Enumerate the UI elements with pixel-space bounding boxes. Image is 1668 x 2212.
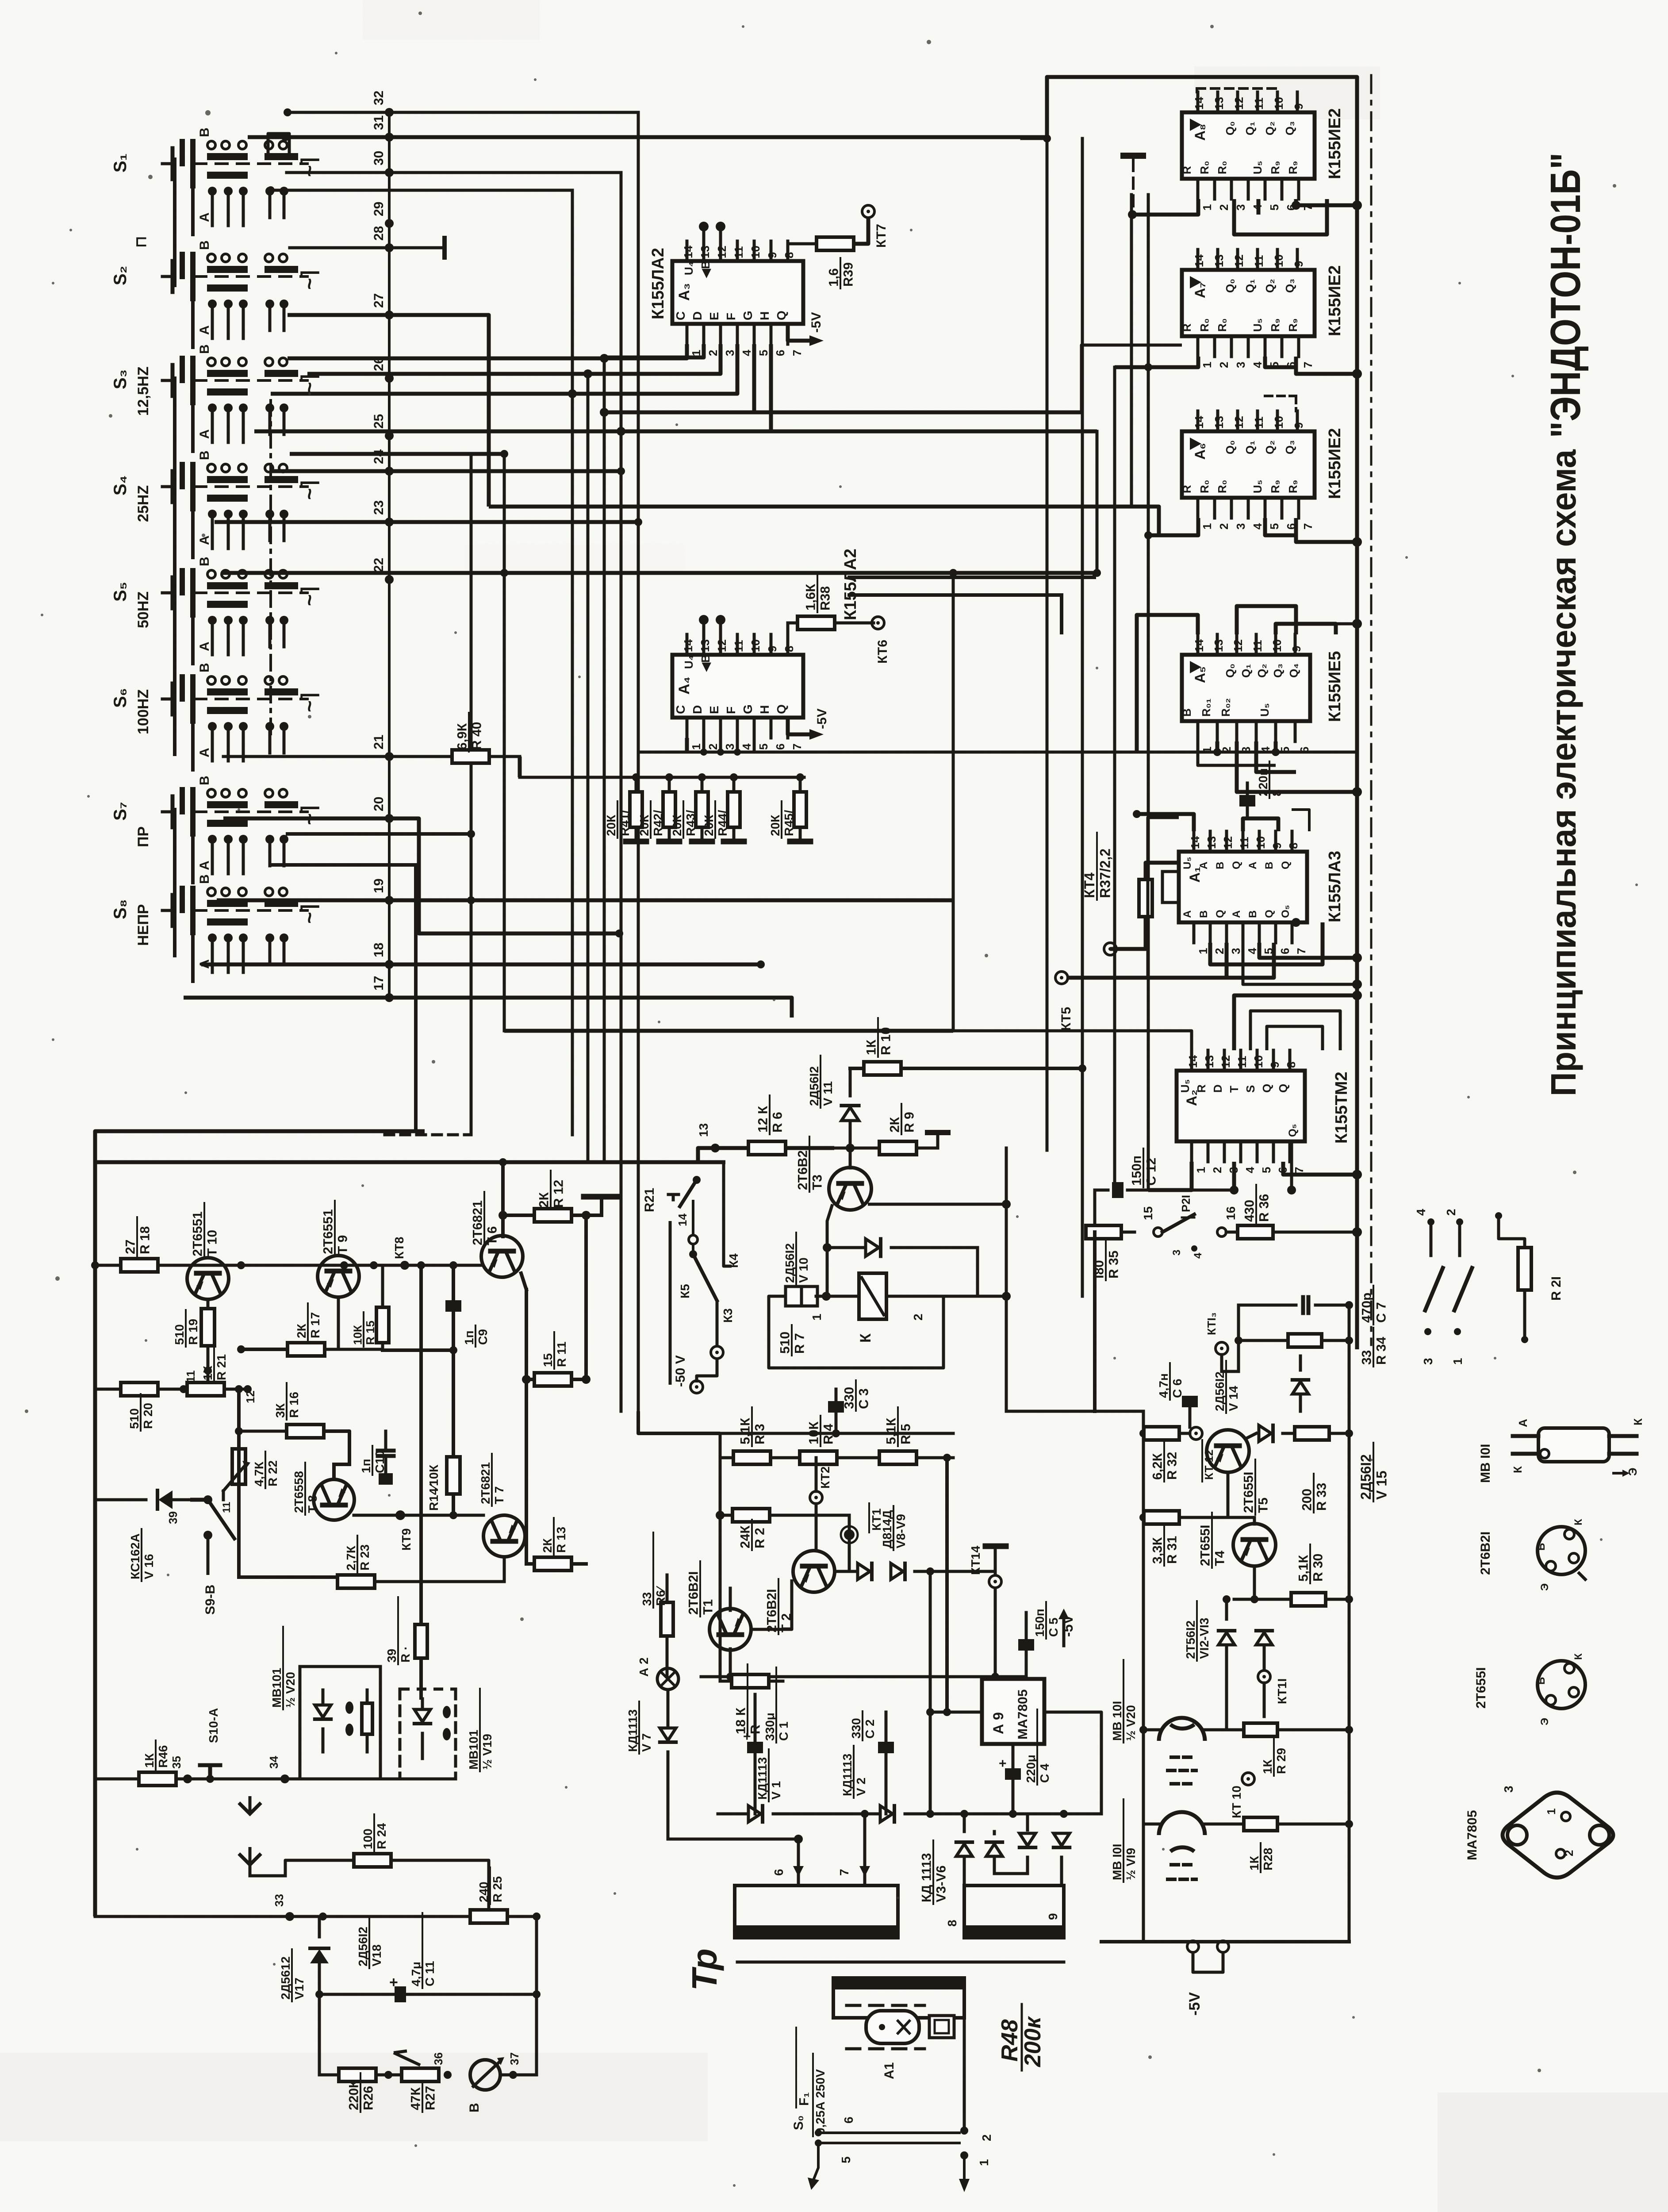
terminal KT8 [392,1237,409,1270]
capacitor C2 330 [849,1711,894,1814]
svg-text:3: 3 [1229,948,1242,954]
terminal KT9 [395,1510,413,1551]
wire T9 base down [337,1297,340,1349]
transformer tertiary winding box [833,1978,964,2018]
svg-text:24К: 24К [738,1525,753,1548]
capacitor C9 1n [383,1261,490,1455]
svg-text:27: 27 [372,293,386,308]
terminal KT12 [1190,1427,1216,1482]
wire vertical bus x1329 [587,374,590,1162]
wire opto bottoms [322,1779,323,1823]
svg-text:36: 36 [432,2052,445,2065]
svg-text:В: В [197,776,212,785]
svg-text:С 2: С 2 [863,1719,877,1739]
wire node20 row [223,818,623,937]
svg-text:R 20: R 20 [141,1403,155,1429]
svg-text:Т3: Т3 [810,1175,825,1190]
svg-text:Т 10: Т 10 [205,1230,220,1256]
svg-text:2: 2 [706,350,720,356]
capacitor C5 150n [1018,1602,1060,1677]
legend switch contacts [1414,1209,1472,1365]
antenna jacks [239,1796,285,1876]
svg-text:R₉: R₉ [1286,161,1300,174]
svg-text:V 16: V 16 [142,1554,156,1579]
svg-text:29: 29 [372,202,386,216]
wire A7 bottom connections [1115,357,1362,379]
svg-text:11: 11 [732,640,745,653]
svg-text:R42/: R42/ [651,810,665,836]
svg-text:20К: 20К [637,814,651,836]
svg-text:U₅: U₅ [1251,161,1264,174]
svg-text:330: 330 [849,1718,863,1739]
svg-text:S₀: S₀ [791,2115,806,2130]
node 34 [267,1756,289,1783]
resistor R6 12K [748,1095,786,1155]
mechanical link dashed S3-S6 [269,400,272,734]
wire A3 pin1 row [288,344,687,363]
svg-text:V8-V9: V8-V9 [894,1514,908,1548]
svg-text:2: 2 [706,744,720,750]
svg-text:К155ИЕ2: К155ИЕ2 [1326,108,1344,179]
svg-text:МВ I0I: МВ I0I [1110,1844,1124,1880]
svg-text:V 10: V 10 [797,1257,810,1283]
svg-text:С 4: С 4 [1038,1763,1051,1783]
terminal KT4 [1104,943,1116,955]
svg-text:1: 1 [977,2159,991,2166]
svg-text:КД 1113: КД 1113 [920,1853,934,1902]
wire vertical x1325 [584,1215,588,1379]
title text [1542,153,1589,1096]
transistor T1 2T6821 [686,1561,792,1677]
wire vertical bus x1294 [571,190,574,1135]
wire T6 emitter down x1190 [521,1273,526,1564]
svg-text:R₀: R₀ [1198,161,1211,175]
svg-text:А: А [197,325,212,335]
terminal KT14 bar [969,1546,1006,1677]
svg-text:Т5: Т5 [1256,1498,1271,1513]
node 21 [372,735,394,761]
svg-text:S₁: S₁ [111,154,130,173]
diode V7 KD1113 [626,1701,676,1839]
svg-text:V 15: V 15 [1373,1471,1389,1500]
svg-text:"ЭНДОТОН-01Б": "ЭНДОТОН-01Б" [1542,153,1589,438]
capacitor C10 1n [359,1431,394,1485]
node 27 [372,293,394,319]
svg-text:12: 12 [1232,97,1246,110]
svg-text:V 14: V 14 [1227,1386,1240,1411]
svg-text:Q₂: Q₂ [1263,440,1277,454]
svg-text:10: 10 [1272,254,1285,267]
wire A5 top connections [1137,606,1336,752]
svg-text:33: 33 [272,1894,286,1907]
wire A4 pin13-12 stubs up [699,615,725,634]
transformer secondary winding box [964,1886,1064,1939]
resistor R44 20K [702,773,744,841]
svg-text:Q₀: Q₀ [1223,279,1237,293]
svg-text:К5: К5 [678,1284,692,1298]
svg-text:Q₃: Q₃ [1271,664,1285,678]
wire y890 row [271,344,737,398]
svg-text:Т 9: Т 9 [336,1235,350,1254]
wire node31 row long to right frame [248,133,1048,141]
svg-text:U₄: U₄ [682,655,695,669]
svg-text:21: 21 [372,735,386,749]
svg-text:V 11: V 11 [821,1081,835,1106]
svg-text:7: 7 [790,350,804,356]
svg-text:10: 10 [1254,836,1267,849]
svg-text:Q: Q [775,311,788,320]
svg-text:R 10: R 10 [879,1027,893,1055]
svg-text:А: А [197,748,212,757]
svg-text:2Т655I: 2Т655I [1242,1472,1256,1513]
svg-text:Q₁: Q₁ [1243,279,1257,293]
svg-text:S₈: S₈ [111,899,130,919]
svg-text:U₄: U₄ [682,261,695,275]
capacitor C12 150n [1095,1141,1239,1232]
wire vstack x2558 [1130,195,1133,507]
svg-text:КТ9: КТ9 [399,1528,413,1551]
svg-text:8: 8 [782,252,796,258]
svg-text:6: 6 [772,1869,786,1876]
svg-text:В: В [1214,862,1226,869]
svg-text:15: 15 [1141,1206,1155,1220]
svg-text:2,7К: 2,7К [344,1545,358,1571]
svg-text:14: 14 [676,1214,689,1226]
wire S1 top U jumper [268,134,289,154]
svg-text:КТ8: КТ8 [392,1237,406,1259]
svg-text:2Д5612: 2Д5612 [279,1956,292,2000]
wire vstack x2480 [1093,431,1101,577]
node 20 [372,797,394,823]
wire A2 top nested connections [953,991,1362,1050]
svg-text:S9-В: S9-В [203,1585,218,1615]
svg-text:R 7: R 7 [793,1333,807,1354]
svg-text:25: 25 [372,414,386,429]
resistor R19 510 [173,1299,215,1389]
svg-text:9: 9 [1046,1913,1060,1920]
svg-text:3,3К: 3,3К [1150,1537,1165,1564]
svg-text:С9: С9 [476,1329,490,1345]
svg-text:33: 33 [640,1592,654,1606]
svg-text:Q₃: Q₃ [1283,121,1296,135]
wire base rail y3425 [239,1514,483,1517]
svg-text:7: 7 [1301,362,1315,368]
svg-text:R ·: R · [399,1646,412,1663]
svg-text:3: 3 [1234,362,1247,368]
svg-text:34: 34 [267,1756,280,1769]
svg-text:2К: 2К [537,1192,552,1208]
svg-text:10: 10 [1252,1055,1265,1068]
wire node25 row [254,344,1097,436]
wire right inner vertical x2447 [1081,138,1084,1296]
diodes V12 V13 2D5612 [1184,1595,1272,1730]
svg-text:В: В [197,874,212,884]
svg-text:2: 2 [1220,747,1233,753]
resistor R47 39 [385,1597,427,1664]
svg-text:Q: Q [775,704,788,714]
svg-text:D: D [690,705,704,714]
switch S5 50Hz [111,557,321,664]
diode V17 2D5612 [279,1916,329,2001]
svg-text:Q₂: Q₂ [1255,664,1269,678]
svg-text:Р2I: Р2I [1179,1195,1193,1212]
transistor T5 2T6551 [1196,1430,1271,1515]
transformer core lines [737,1961,1064,1964]
svg-text:330μ: 330μ [763,1713,777,1741]
svg-text:1,6К: 1,6К [804,584,818,611]
wire mid rails [720,1429,953,1681]
wire T7 emitter [0,0,0,0]
resistor R25 240 [470,1867,507,1923]
resistor R12 2K [498,1171,619,1222]
svg-text:30: 30 [372,151,386,165]
diode V15 2D5612 [1292,1305,1390,1502]
svg-text:~⌉: ~⌉ [298,480,321,500]
svg-text:9: 9 [1292,422,1305,429]
optocoupler right V19 [1110,1799,1244,1882]
wire S5-S6 link [185,593,186,712]
wire opto column [1143,1730,1144,1824]
terminal KT11 [1258,1671,1289,1717]
svg-text:R 40: R 40 [470,722,484,750]
svg-text:U₅: U₅ [1258,703,1271,717]
svg-text:К155ИЕ2: К155ИЕ2 [1326,428,1344,499]
svg-text:5,1К: 5,1К [1296,1555,1311,1582]
wire node21 row R40 [223,757,520,777]
optocoupler half V20 MB101 [270,1627,380,1779]
svg-text:3: 3 [1171,1250,1183,1256]
svg-text:К: К [1572,1653,1584,1660]
resistor R3 5.1K [733,1407,771,1464]
resistor R9 2K [879,1104,917,1155]
svg-text:2Т6В2I: 2Т6В2I [796,1147,810,1190]
resistor R27 47K variable [376,2051,439,2112]
IC U-A1 K155LA3 [1179,831,1344,954]
svg-text:10: 10 [1272,416,1285,429]
svg-text:+: + [389,1974,398,1991]
svg-text:Q: Q [1214,910,1226,918]
svg-text:V18: V18 [370,1944,383,1966]
wire node19 row [217,896,953,904]
IC U-A5 K155IE5 [1180,634,1344,753]
svg-text:8: 8 [1285,1062,1298,1068]
svg-text:Принципиальная электрическая: Принципиальная электрическая схема [1544,449,1583,1096]
svg-text:13: 13 [1212,639,1225,652]
svg-text:Тр: Тр [685,1948,724,1991]
wire A7 pin1 left [1081,345,1182,412]
svg-text:S₅: S₅ [111,582,130,602]
svg-text:R41/: R41/ [618,810,632,836]
svg-text:R₉: R₉ [1286,319,1300,332]
resistor R38 1.6K [788,573,874,634]
svg-text:К: К [1511,1466,1524,1473]
resistor R32 6.2K [1143,1427,1190,1482]
frame top right box [1047,77,1357,1349]
node 24 [372,449,394,476]
svg-text:1: 1 [810,1313,824,1321]
wire A5 bottom connections [1213,741,1362,797]
wire R6-R9 [786,1147,882,1150]
svg-text:R39: R39 [841,262,856,287]
fuse F1 label [796,2028,827,2136]
switch 15-16 R21 [1141,1195,1238,1259]
svg-text:R 11: R 11 [555,1341,568,1367]
svg-text:2Т56I2: 2Т56I2 [1184,1621,1197,1659]
wire opto row [95,1778,400,1781]
svg-text:19: 19 [372,879,386,893]
svg-text:1К: 1К [201,1365,215,1380]
label V8-V9 D814D [880,1506,908,1550]
svg-text:7: 7 [837,1869,851,1876]
svg-text:2: 2 [1217,204,1231,211]
svg-text:3: 3 [1421,1358,1435,1365]
svg-text:3: 3 [1239,747,1253,753]
switch S8 NEPR [111,874,321,981]
wire A9 left down [926,1571,934,1818]
svg-text:11: 11 [1252,417,1265,429]
wire vertical bus x1443 [637,113,640,1411]
power -5V A4 [788,708,829,740]
svg-text:1: 1 [1196,948,1210,954]
svg-text:0,25А 250V: 0,25А 250V [813,2069,827,2135]
svg-text:~⌉: ~⌉ [298,270,321,290]
svg-text:КД1113: КД1113 [626,1709,640,1752]
svg-text:10: 10 [749,246,762,258]
analog box border [95,1131,725,1916]
node 17 [372,976,394,1002]
svg-text:23: 23 [372,500,386,515]
wire node26 row [307,344,721,378]
svg-text:220п: 220п [1256,768,1270,796]
svg-text:G: G [741,311,755,320]
svg-text:R₉: R₉ [1269,161,1282,174]
switch S4 25Hz [111,450,321,557]
svg-text:510: 510 [127,1408,141,1429]
svg-text:R: R [1195,1084,1208,1093]
svg-text:МВ101: МВ101 [467,1730,480,1770]
legend MB101 connector [1478,1418,1645,1483]
wire node29 row [267,186,572,194]
svg-text:150п: 150п [1033,1609,1047,1637]
svg-text:Т 8: Т 8 [306,1495,319,1513]
wire right bus mid x2155 [949,569,957,1031]
svg-text:R₀: R₀ [1198,480,1211,494]
svg-text:13: 13 [1203,1055,1216,1068]
wire node28 stub [290,238,445,257]
svg-text:R 12: R 12 [552,1180,566,1208]
resistor R34 33 [1235,1328,1389,1367]
diodes V8 V9 [835,1563,995,1579]
svg-text:½ VI9: ½ VI9 [1124,1848,1138,1880]
svg-text:R: R [1180,485,1193,493]
svg-text:Q: Q [1277,1084,1290,1093]
wire vertical bus x1366 [603,358,606,1162]
svg-text:4: 4 [1414,1209,1428,1216]
resistor R21-1K body [180,1382,224,1396]
ground bar A8 [1124,156,1143,215]
svg-text:U₅: U₅ [1251,480,1264,493]
wire node18 row [201,960,765,968]
svg-text:Q: Q [1280,861,1292,869]
svg-text:13: 13 [697,1123,710,1137]
node 25 [372,414,394,440]
lamp A2 [637,1657,679,1728]
transistor T4 2T6551 [1198,1472,1276,1568]
resistor R6b 33 [640,1532,673,1677]
resistor R10 1K [850,1018,1086,1075]
wire vertical bus x1404 [620,175,623,1411]
svg-text:R38: R38 [818,586,833,611]
svg-text:К4: К4 [727,1253,740,1268]
optocoupler half V19 MB101 [400,1689,494,1779]
svg-text:Q₁: Q₁ [1243,122,1257,135]
transformer primary winding box [735,1886,898,1939]
svg-text:3: 3 [723,744,736,750]
svg-text:О₅: О₅ [1280,905,1292,918]
diode V2 KD1113 [840,1746,930,1822]
svg-text:470р: 470р [1360,1293,1374,1323]
resistor R15 10K variable [351,1265,389,1349]
wire y4157 row [668,1835,804,1886]
svg-text:КТ1I: КТ1I [1275,1678,1289,1704]
terminal KT7 [862,205,889,248]
svg-text:6: 6 [774,350,787,356]
transistor T7 2T6821 [479,1454,525,1557]
svg-text:4: 4 [1259,746,1272,753]
network top rail [520,776,804,779]
terminal KT1 [841,1503,883,1543]
svg-text:2: 2 [1213,948,1226,954]
transistor T9 2T6551 [318,1201,359,1297]
svg-text:2Д56I2: 2Д56I2 [807,1066,821,1106]
wire vstack x2520 [1113,367,1116,1190]
svg-text:2: 2 [980,2134,993,2141]
svg-text:2Т6В2I: 2Т6В2I [765,1589,779,1632]
svg-text:Q₅: Q₅ [1287,1124,1299,1137]
wire node23 row [215,518,642,526]
svg-text:◀В: ◀В [699,261,712,278]
svg-text:КТ6: КТ6 [875,640,890,664]
optocoupler right V20 [1110,1660,1244,1784]
bridge V3-V6 KD1113 [920,1810,1101,1927]
svg-text:Q₀: Q₀ [1223,440,1237,454]
svg-text:КТ 10: КТ 10 [1230,1786,1243,1818]
svg-text:1К: 1К [864,1039,879,1055]
switch R21 K4 K5 K3 left [642,1164,740,1385]
svg-text:9: 9 [766,646,779,652]
svg-text:7: 7 [790,744,804,750]
svg-text:5: 5 [757,744,770,750]
svg-text:МВ 10I: МВ 10I [1110,1701,1124,1741]
resistor R14 10K [427,1457,460,1519]
svg-text:А 2: А 2 [637,1657,651,1677]
svg-text:2Д56I2: 2Д56I2 [1213,1371,1227,1411]
svg-text:18: 18 [372,943,386,957]
svg-text:2: 2 [1211,1167,1224,1173]
svg-text:А₄: А₄ [676,676,693,695]
svg-text:14: 14 [1193,254,1206,267]
svg-text:5: 5 [757,350,770,356]
svg-text:А₃: А₃ [676,283,693,301]
svg-text:А 9: А 9 [990,1712,1006,1734]
svg-text:F: F [724,707,738,714]
svg-text:R₉: R₉ [1269,480,1282,493]
svg-text:10: 10 [1272,97,1285,110]
svg-text:16: 16 [1224,1206,1238,1220]
switch S6 100Hz [111,663,321,770]
resistor R7 510 [769,1286,943,1368]
svg-text:14: 14 [1193,416,1206,429]
